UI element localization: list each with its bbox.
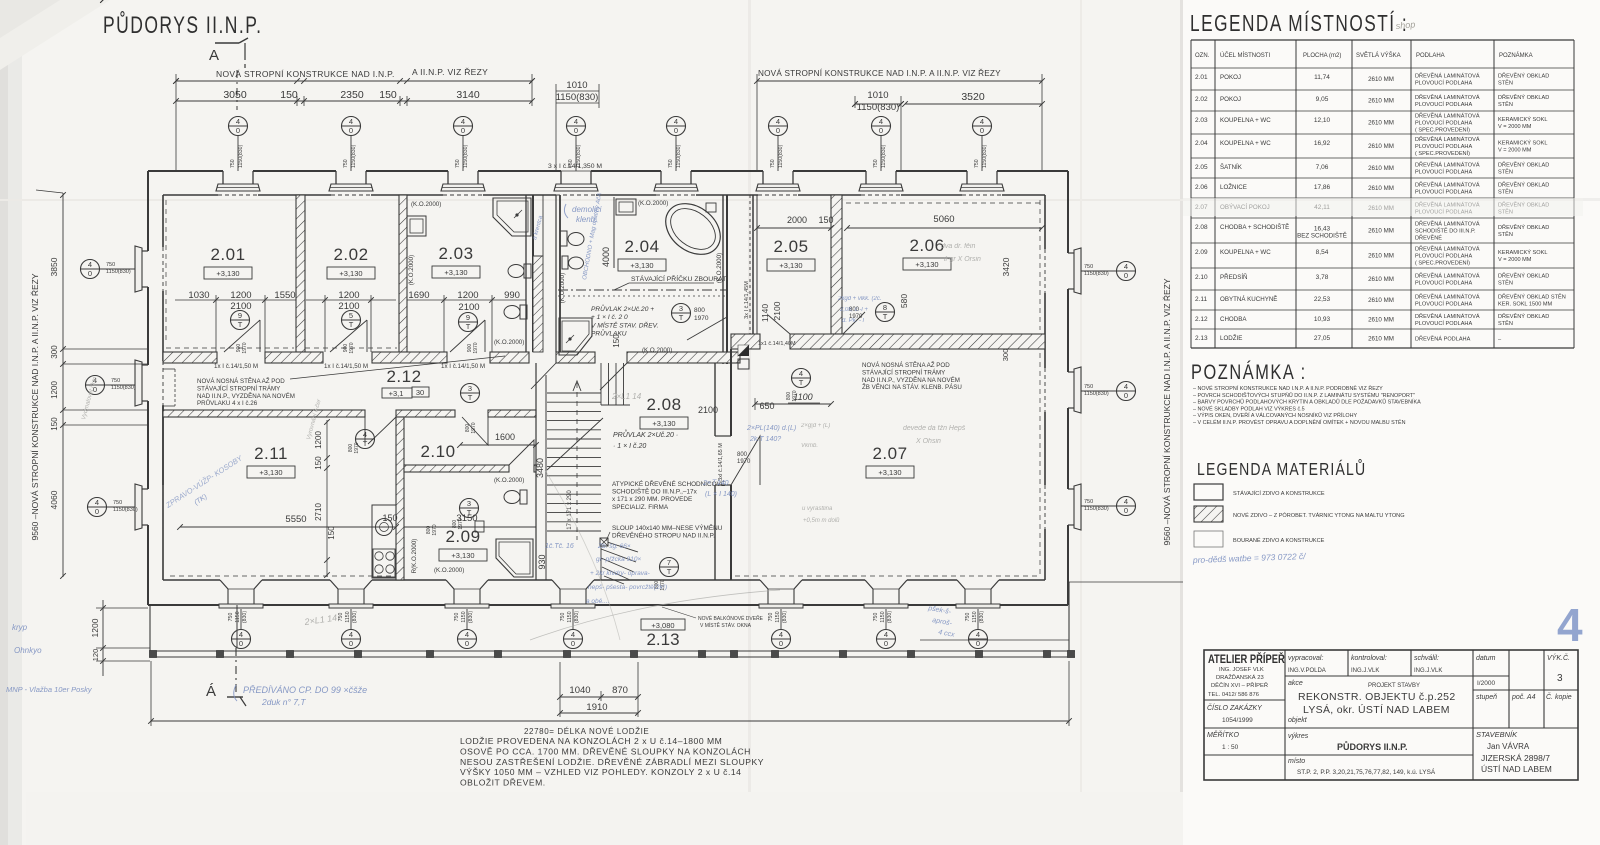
svg-text:4: 4	[1124, 382, 1128, 391]
svg-text:5060: 5060	[933, 214, 954, 225]
svg-text:+ 1 × I č. 2 0: + 1 × I č. 2 0	[591, 314, 628, 321]
svg-text:1970: 1970	[737, 459, 751, 465]
svg-text:il-gr X Orsin: il-gr X Orsin	[944, 256, 981, 263]
svg-text:T: T	[883, 312, 888, 321]
svg-text:ING.J.VLK: ING.J.VLK	[1414, 668, 1442, 674]
building outer wall left	[147, 171, 149, 251]
svg-text:2.06: 2.06	[909, 236, 944, 255]
svg-text:DŘEVĚNÝ OBKLAD: DŘEVĚNÝ OBKLAD	[1498, 93, 1549, 101]
svg-text:5: 5	[349, 311, 353, 320]
svg-text:NOVÉ BALKÓNOVÉ DVEŘE: NOVÉ BALKÓNOVÉ DVEŘE	[698, 614, 764, 622]
svg-text:2×PL(140) d.(L): 2×PL(140) d.(L)	[746, 425, 796, 432]
svg-text:1200: 1200	[50, 381, 59, 399]
corridor circle 3T	[461, 384, 480, 403]
svg-text:PLOVOUCÍ PODLAHA: PLOVOUCÍ PODLAHA	[1415, 168, 1472, 175]
svg-text:Zb. šg. 66×: Zb. šg. 66×	[597, 543, 631, 550]
svg-text:LEGENDA MÍSTNOSTÍ :: LEGENDA MÍSTNOSTÍ :	[1190, 11, 1408, 37]
svg-text:0: 0	[1124, 391, 1128, 400]
svg-text:4: 4	[1124, 497, 1128, 506]
svg-text:1150(830): 1150(830)	[111, 385, 136, 391]
svg-text:1150(830): 1150(830)	[238, 144, 244, 168]
svg-text:DŘEVĚNÉ: DŘEVĚNÉ	[1415, 233, 1442, 241]
svg-text:JIZERSKÁ 2898/7: JIZERSKÁ 2898/7	[1481, 753, 1550, 763]
svg-text:1200: 1200	[90, 618, 100, 637]
svg-text:PROJEKT STAVBY: PROJEKT STAVBY	[1368, 683, 1420, 689]
svg-text:3480: 3480	[535, 458, 545, 478]
west niche door dashes	[174, 369, 176, 406]
svg-text:4060: 4060	[49, 490, 59, 509]
svg-text:ŠATNÍK: ŠATNÍK	[1220, 164, 1243, 171]
wall 2.04 left	[555, 195, 557, 352]
svg-text:(K.O.2000): (K.O.2000)	[638, 200, 668, 207]
svg-text:4000: 4000	[601, 247, 611, 267]
svg-text:2100: 2100	[772, 301, 782, 320]
svg-text:NAD II.N.P., VYZDĚNA NA NO: NAD II.N.P., VYZDĚNA NA NOVÉM	[862, 376, 960, 384]
svg-text:2.03: 2.03	[438, 244, 473, 263]
svg-text:4: 4	[776, 117, 780, 126]
svg-text:STAVEBNÍK: STAVEBNÍK	[1476, 730, 1518, 739]
svg-text:3: 3	[467, 499, 471, 508]
svg-text:X Ohsin: X Ohsin	[915, 438, 941, 445]
svg-text:gr- přžcka 910×: gr- přžcka 910×	[596, 556, 641, 563]
svg-text:DŘEVĚNÉHO STROPU NAD II.N.P: DŘEVĚNÉHO STROPU NAD II.N.P.	[612, 531, 715, 540]
winder steps bottom	[601, 540, 638, 552]
svg-text:1č.Tč. 16: 1č.Tč. 16	[545, 543, 574, 550]
svg-text:4: 4	[95, 498, 99, 507]
svg-text:0: 0	[976, 639, 980, 648]
svg-text:POZNÁMKA: POZNÁMKA	[1499, 52, 1533, 59]
svg-text:2610 MM: 2610 MM	[1368, 76, 1394, 83]
svg-text:930: 930	[537, 554, 547, 569]
grid marker circles top	[229, 117, 248, 136]
2.03 bidet	[504, 306, 520, 319]
legend title	[1190, 11, 1408, 37]
svg-text:ING. JOSEF VLK: ING. JOSEF VLK	[1219, 667, 1264, 673]
svg-text:22780= DÉLKA NOVÉ LODŽIE: 22780= DÉLKA NOVÉ LODŽIE	[524, 727, 649, 736]
svg-text:30: 30	[416, 388, 424, 397]
left bottom dims 1200 120	[102, 0, 104, 1]
svg-text:SCHODIŠTĚ DO III.N.P.: SCHODIŠTĚ DO III.N.P.	[1415, 227, 1476, 235]
svg-text:ÚČEL MÍSTNOSTI: ÚČEL MÍSTNOSTI	[1220, 52, 1270, 59]
svg-text:0: 0	[1124, 271, 1128, 280]
svg-text:TEL. 0412/ 586 876: TEL. 0412/ 586 876	[1208, 692, 1259, 698]
svg-text:0: 0	[349, 126, 353, 135]
2.03 wc	[508, 265, 524, 278]
svg-text:(K.O.2000): (K.O.2000)	[411, 201, 441, 208]
svg-text:(830): (830)	[979, 611, 985, 623]
svg-text:kryp: kryp	[12, 623, 28, 632]
svg-text:800: 800	[737, 452, 748, 458]
svg-text:PLOVOUCÍ PODLAHA: PLOVOUCÍ PODLAHA	[1415, 279, 1472, 286]
svg-text:800: 800	[694, 307, 705, 314]
svg-text:+3,130: +3,130	[444, 268, 467, 277]
svg-text:2610 MM: 2610 MM	[1368, 336, 1394, 343]
title PUDORYS II.N.P.	[103, 11, 262, 38]
svg-text:– V CELÉM II.N.P. PROVÉST: – V CELÉM II.N.P. PROVÉST OPRAVU A DOPLN…	[1193, 418, 1406, 426]
svg-text:150: 150	[50, 417, 59, 431]
svg-text:7: 7	[667, 558, 671, 567]
svg-text:3050: 3050	[223, 89, 247, 101]
svg-text:schválil:: schválil:	[1414, 655, 1439, 662]
svg-text:1970: 1970	[694, 315, 709, 322]
material swatch 1	[1194, 484, 1223, 500]
svg-text:LODŽIE: LODŽIE	[1220, 334, 1242, 342]
2.03 door circle	[459, 313, 478, 332]
svg-text:2,0k, c.-l +: 2,0k, c.-l +	[839, 307, 868, 313]
svg-text:9: 9	[466, 313, 470, 322]
svg-text:PRŮVLAKU 4 x I č.26: PRŮVLAKU 4 x I č.26	[197, 400, 258, 407]
svg-text:STÁVAJÍCÍ ZDIVO A KONSTRUKC: STÁVAJÍCÍ ZDIVO A KONSTRUKCE	[1233, 490, 1325, 497]
loggia deck lines	[920, 639, 1069, 641]
stair hall west wall	[535, 363, 537, 580]
svg-text:A: A	[209, 47, 219, 64]
2.01 door swing	[259, 320, 261, 352]
svg-text:650: 650	[759, 401, 774, 411]
svg-text:KER. SOKL 1500 MM: KER. SOKL 1500 MM	[1498, 301, 1553, 307]
svg-text:OBLOŽIT DŘEVEM.: OBLOŽIT DŘEVEM.	[460, 778, 546, 788]
svg-text:DRAŽĎANSKÁ 23: DRAŽĎANSKÁ 23	[1216, 673, 1264, 681]
svg-text:3,78: 3,78	[1316, 274, 1329, 281]
hall door leaf west	[531, 363, 556, 389]
svg-text:750: 750	[343, 159, 349, 168]
interior wall 2.03 right	[525, 195, 527, 352]
wall 2.05 left	[752, 195, 754, 340]
dashed ceiling lines rooms	[166, 347, 294, 349]
svg-text:1x I č.14/1,50 M: 1x I č.14/1,50 M	[441, 363, 485, 370]
svg-text:– BARVY POVRCHŮ PODLAHOVÝCH: – BARVY POVRCHŮ PODLAHOVÝCH KRYTIN A OBK…	[1193, 398, 1421, 406]
svg-text:2.07: 2.07	[872, 444, 907, 463]
svg-text:DŘEVĚNÝ OBKLAD: DŘEVĚNÝ OBKLAD	[1498, 272, 1549, 280]
svg-text:2610 MM: 2610 MM	[1368, 317, 1394, 324]
svg-text:2100: 2100	[458, 302, 479, 313]
svg-text:0: 0	[461, 126, 465, 135]
2.04 wc	[560, 231, 567, 246]
svg-text:d. Pk. - l: d. Pk. - l	[842, 318, 865, 324]
svg-text:3xI č.14/1,65 M: 3xI č.14/1,65 M	[718, 443, 724, 481]
svg-text:0: 0	[236, 126, 240, 135]
interior wall 2.01|2.02 (new, hatched)	[296, 195, 305, 352]
svg-text:NOVÁ STROPNÍ KONSTRUKCE NAD: NOVÁ STROPNÍ KONSTRUKCE NAD I.N.P. A II.…	[758, 68, 1001, 78]
svg-text:4: 4	[884, 630, 888, 639]
svg-text:12,10: 12,10	[1314, 117, 1331, 124]
svg-text:(830): (830)	[352, 611, 358, 623]
svg-text:KOUPELNA + WC: KOUPELNA + WC	[1220, 249, 1271, 256]
svg-text:16,92: 16,92	[1314, 140, 1331, 147]
legend table grid	[1190, 40, 1192, 348]
svg-text:8: 8	[883, 303, 887, 312]
svg-text:1200: 1200	[338, 290, 359, 301]
left wall windows	[142, 250, 148, 252]
svg-text:V = 2000 MM: V = 2000 MM	[1498, 257, 1532, 263]
svg-text:750: 750	[873, 159, 879, 168]
svg-text:1970: 1970	[458, 518, 464, 529]
svg-text:OZN.: OZN.	[1195, 53, 1210, 59]
svg-text:T: T	[238, 320, 243, 329]
svg-text:1150(830): 1150(830)	[676, 144, 682, 168]
svg-text:150: 150	[327, 526, 336, 540]
svg-text:x 171 x 290 MM. PROVEDE: x 171 x 290 MM. PROVEDE	[612, 496, 692, 503]
svg-text:– NOVÉ STROPNÍ KONSTRUKCE: – NOVÉ STROPNÍ KONSTRUKCE NAD I.N.P. A I…	[1193, 384, 1383, 392]
svg-text:2k.T 140?: 2k.T 140?	[749, 436, 781, 443]
svg-text:4: 4	[349, 630, 353, 639]
svg-text:STĚN: STĚN	[1498, 230, 1513, 238]
svg-text:V = 2000 MM: V = 2000 MM	[1498, 147, 1532, 153]
svg-text:1010: 1010	[867, 90, 888, 101]
stair hall circle 7T	[660, 558, 679, 577]
wall 2.08 right / 2.07 left	[714, 363, 716, 436]
2.03 door swing	[484, 320, 486, 352]
svg-text:750: 750	[770, 159, 776, 168]
svg-text:SCHODIŠTĚ DO III.N.P.,–17x: SCHODIŠTĚ DO III.N.P.,–17x	[612, 487, 698, 496]
svg-text:3: 3	[468, 384, 472, 393]
hall circle 4T	[792, 369, 811, 388]
2.01 door circle	[231, 311, 250, 330]
stair stringer diagonal	[547, 418, 603, 470]
left dim verticals	[62, 193, 64, 577]
svg-text:– POVRCH SCHODIŠŤOVÝCH STUP: – POVRCH SCHODIŠŤOVÝCH STUPŇŮ DO II.N.P.…	[1193, 391, 1415, 399]
right wall windows	[1068, 252, 1074, 254]
svg-text:1600: 1600	[495, 432, 515, 442]
svg-text:2duk n° 7,T: 2duk n° 7,T	[261, 697, 306, 707]
svg-text:+3,130: +3,130	[630, 261, 653, 270]
svg-text:POKOJ: POKOJ	[1220, 74, 1241, 81]
svg-text:SVĚTLÁ VÝŠKA: SVĚTLÁ VÝŠKA	[1356, 51, 1401, 59]
svg-text:ČÍSLO ZAKÁZKY: ČÍSLO ZAKÁZKY	[1207, 703, 1263, 712]
svg-text:1970: 1970	[242, 342, 248, 353]
svg-text:1200: 1200	[230, 290, 251, 301]
svg-text:DĚČÍN XVI – PŘÍPEŘ: DĚČÍN XVI – PŘÍPEŘ	[1211, 681, 1268, 689]
kitchen block in 2.11	[372, 505, 396, 578]
svg-text:DŘEVĚNÁ LAMINÁTOVÁ: DŘEVĚNÁ LAMINÁTOVÁ	[1415, 312, 1480, 320]
2.02 door swing	[366, 320, 368, 352]
svg-text:750: 750	[113, 500, 122, 506]
svg-text:1970: 1970	[349, 342, 355, 353]
svg-text:LODŽIE PROVEDENA NA KONZOLÁ: LODŽIE PROVEDENA NA KONZOLÁCH 2 x U č.14…	[460, 736, 722, 746]
svg-text:poč. A4: poč. A4	[1511, 694, 1536, 701]
svg-text:V = 2000 MM: V = 2000 MM	[1498, 124, 1532, 130]
svg-text:PODLAHA: PODLAHA	[1416, 53, 1445, 59]
pencil arcs bottom center	[530, 590, 780, 640]
svg-text:+3,130: +3,130	[259, 468, 282, 477]
svg-text:OSOVĚ PO CCA. 1700 MM. DŘ: OSOVĚ PO CCA. 1700 MM. DŘEVĚNÉ SLOUPKY N…	[460, 746, 751, 756]
svg-text:3520: 3520	[961, 91, 985, 103]
corridor circle 4T lower	[356, 430, 375, 449]
svg-text:1690: 1690	[408, 290, 429, 301]
top wall windows	[222, 171, 224, 184]
svg-text:750: 750	[1084, 499, 1093, 505]
svg-text:2kgd + vlkk. (2c.: 2kgd + vlkk. (2c.	[837, 296, 882, 302]
svg-text:9,05: 9,05	[1316, 96, 1329, 103]
svg-text:2710: 2710	[314, 503, 323, 521]
svg-text:1054/1999: 1054/1999	[1222, 717, 1253, 724]
svg-text:2.05: 2.05	[773, 237, 808, 256]
svg-text:DŘEVĚNÁ LAMINÁTOVÁ: DŘEVĚNÁ LAMINÁTOVÁ	[1415, 93, 1480, 101]
svg-text:4: 4	[976, 630, 980, 639]
svg-text:750: 750	[111, 378, 120, 384]
svg-text:750: 750	[454, 613, 460, 622]
svg-text:CHODBA: CHODBA	[1220, 316, 1247, 323]
svg-text:1200: 1200	[457, 290, 478, 301]
svg-text:kontroloval:: kontroloval:	[1351, 655, 1387, 662]
svg-text:2.10: 2.10	[1195, 274, 1208, 281]
svg-text:MNP - Vlažba 10er Posky: MNP - Vlažba 10er Posky	[6, 685, 93, 694]
svg-text:DŘEVĚNÁ LAMINÁTOVÁ: DŘEVĚNÁ LAMINÁTOVÁ	[1415, 245, 1480, 253]
2.11 door swing	[368, 417, 396, 444]
svg-text:1150: 1150	[235, 611, 241, 622]
building outer wall top	[148, 170, 223, 172]
svg-text:1150(830): 1150(830)	[463, 144, 469, 168]
svg-text:2610 MM: 2610 MM	[1368, 297, 1394, 304]
svg-text:750: 750	[106, 262, 115, 268]
svg-text:7,06: 7,06	[1316, 164, 1329, 171]
svg-text:( SPEC.PROVEDENÍ): ( SPEC.PROVEDENÍ)	[1415, 150, 1470, 157]
svg-text:2.01: 2.01	[1195, 74, 1208, 81]
svg-text:ÚSTÍ NAD LABEM: ÚSTÍ NAD LABEM	[1481, 764, 1552, 774]
svg-text:PLOVOUCÍ PODLAHA: PLOVOUCÍ PODLAHA	[1415, 120, 1472, 127]
interior wall 2.02|2.03 (new, hatched)	[399, 195, 407, 352]
wall 2.10|2.09 (new, hatched)	[404, 465, 509, 472]
svg-text:DŘEVĚNÝ OBKLAD: DŘEVĚNÝ OBKLAD	[1498, 72, 1549, 80]
svg-text:nepš- pšesta- povrcžtě(2k²): nepš- pšesta- povrcžtě(2k²)	[588, 584, 667, 591]
svg-text:BOURANÉ ZDIVO A KONSTRUKCE: BOURANÉ ZDIVO A KONSTRUKCE	[1233, 537, 1325, 544]
svg-text:STÁVAJÍCÍ STROPNÍ TRÁMY: STÁVAJÍCÍ STROPNÍ TRÁMY	[862, 369, 945, 376]
svg-text:9560 –NOVÁ STROPNÍ KONSTRUK: 9560 –NOVÁ STROPNÍ KONSTRUKCE NAD I.N.P.…	[1162, 278, 1172, 545]
svg-text:120: 120	[91, 649, 100, 662]
svg-text:4: 4	[574, 117, 578, 126]
svg-text:1030: 1030	[188, 290, 209, 301]
svg-text:KERAMICKÝ SOKL: KERAMICKÝ SOKL	[1498, 249, 1547, 256]
load wall right section (new, hatched)	[731, 334, 760, 349]
svg-text:2610 MM: 2610 MM	[1368, 276, 1394, 283]
title block left col	[1208, 652, 1285, 666]
svg-text:1x I č.14/1,50 M: 1x I č.14/1,50 M	[324, 363, 368, 370]
svg-text:17,86: 17,86	[1314, 184, 1331, 191]
svg-text:(830): (830)	[887, 611, 893, 623]
svg-text:3: 3	[1557, 673, 1563, 684]
svg-text:T: T	[679, 313, 684, 322]
svg-text:990: 990	[504, 290, 520, 301]
svg-text:DŘEVĚNÁ LAMINÁTOVÁ: DŘEVĚNÁ LAMINÁTOVÁ	[1415, 272, 1480, 280]
svg-text:11,74: 11,74	[1314, 74, 1330, 81]
svg-text:(830): (830)	[468, 611, 474, 623]
2.04 circle 3T	[672, 304, 691, 323]
svg-text:STĚN: STĚN	[1498, 319, 1513, 327]
svg-text:750: 750	[560, 613, 566, 622]
svg-text:V MÍSTĚ STÁV. OKNA: V MÍSTĚ STÁV. OKNA	[700, 621, 752, 629]
svg-text:1150(830): 1150(830)	[881, 144, 887, 168]
svg-text:1150: 1150	[972, 611, 978, 622]
svg-text:PŮDORYS II.N.P.: PŮDORYS II.N.P.	[103, 11, 262, 38]
2.04 sink	[616, 199, 636, 215]
svg-text:NOVÁ NOSNÁ STĚNA AŽ POD: NOVÁ NOSNÁ STĚNA AŽ POD	[862, 361, 950, 369]
svg-text:2350: 2350	[340, 89, 364, 101]
svg-text:1200: 1200	[314, 431, 323, 449]
svg-text:0: 0	[879, 126, 883, 135]
left window circles	[81, 260, 100, 279]
hall door leaf 2.04 entry	[600, 363, 627, 390]
svg-text:4: 4	[1557, 599, 1583, 651]
svg-text:0: 0	[1124, 506, 1128, 515]
svg-text:DŘEVĚNÁ PODLAHA: DŘEVĚNÁ PODLAHA	[1415, 335, 1471, 343]
svg-text:PŘEDSÍŇ: PŘEDSÍŇ	[1220, 273, 1248, 281]
svg-text:(K.O.2000): (K.O.2000)	[494, 477, 524, 484]
svg-text:3420: 3420	[1001, 257, 1011, 276]
svg-text:2× I̅ 140: 2× I̅ 140	[702, 479, 729, 487]
svg-text:0: 0	[674, 126, 678, 135]
svg-text:STĚN: STĚN	[1498, 100, 1513, 108]
svg-text:PLOVOUCÍ PODLAHA: PLOVOUCÍ PODLAHA	[1415, 300, 1472, 307]
2.04 door leaf	[687, 317, 727, 340]
svg-text:1140: 1140	[760, 304, 770, 323]
svg-text:1150(830): 1150(830)	[576, 144, 582, 168]
svg-text:(K.O.2000): (K.O.2000)	[434, 567, 464, 574]
svg-text:DŘEVĚNÁ LAMINÁTOVÁ: DŘEVĚNÁ LAMINÁTOVÁ	[1415, 220, 1480, 228]
svg-text:LOŽNICE: LOŽNICE	[1220, 183, 1247, 191]
svg-text:PLOVOUCÍ PODLAHA: PLOVOUCÍ PODLAHA	[1415, 320, 1472, 327]
svg-text:BEZ SCHODIŠTĚ: BEZ SCHODIŠTĚ	[1297, 232, 1347, 240]
svg-text:1x1 č.14/1,40M: 1x1 č.14/1,40M	[758, 341, 796, 347]
svg-text:2.08: 2.08	[646, 395, 681, 414]
svg-text:1x I č.14/1,50 M: 1x I č.14/1,50 M	[214, 363, 258, 370]
crease fade over table row 2.07	[1183, 198, 1583, 216]
svg-text:580: 580	[899, 294, 909, 308]
svg-text:2.09: 2.09	[1195, 249, 1208, 256]
svg-text:8,54: 8,54	[1316, 249, 1329, 256]
title block frame	[1204, 650, 1578, 780]
2.03 corner shower	[493, 198, 531, 236]
svg-text:POKOJ: POKOJ	[1220, 96, 1241, 103]
svg-text:T: T	[468, 393, 473, 402]
wall 2.05|2.06 (new, hatched)	[831, 195, 842, 334]
2.04 bath tub	[656, 193, 730, 265]
svg-text:STĚN: STĚN	[1498, 187, 1513, 195]
svg-text:devede da fžn Hepš: devede da fžn Hepš	[903, 425, 966, 432]
svg-text:3850: 3850	[49, 257, 59, 276]
dim 1040 870 1910	[560, 696, 638, 698]
svg-text:výkres: výkres	[1288, 733, 1309, 740]
svg-text:+3,130: +3,130	[779, 261, 802, 270]
svg-text:STĚN: STĚN	[1498, 167, 1513, 175]
svg-text:0: 0	[980, 126, 984, 135]
section marker A bottom	[227, 696, 243, 698]
material swatch 3	[1194, 531, 1223, 547]
svg-text:STÁVAJÍCÍ STROPNÍ TRÁMY: STÁVAJÍCÍ STROPNÍ TRÁMY	[197, 385, 280, 392]
svg-text:1 : 50: 1 : 50	[1222, 744, 1239, 751]
staircase treads	[547, 392, 601, 394]
staircase center dashed walk line with arrow	[576, 383, 578, 540]
2.04 shower	[559, 318, 592, 355]
svg-text:16,43: 16,43	[1314, 226, 1331, 233]
svg-text:KERAMICKÝ SOKL: KERAMICKÝ SOKL	[1498, 140, 1547, 147]
svg-text:1150: 1150	[567, 611, 573, 622]
svg-text:4: 4	[239, 630, 243, 639]
svg-text:NAD II.N.P., VYZDĚNA NA NO: NAD II.N.P., VYZDĚNA NA NOVÉM	[197, 392, 295, 400]
2.06 door leaf	[843, 312, 865, 334]
svg-text:(K.O.2000): (K.O.2000)	[716, 253, 723, 283]
svg-text:vypracoval:: vypracoval:	[1288, 655, 1323, 662]
black corner squares near hall	[738, 345, 749, 356]
svg-text:NESOU ZASTŘEŠENÍ LODŽIE. DŘ: NESOU ZASTŘEŠENÍ LODŽIE. DŘEVĚNÉ ZÁBRADL…	[460, 757, 764, 767]
svg-text:DŘEVĚNÁ LAMINÁTOVÁ: DŘEVĚNÁ LAMINÁTOVÁ	[1415, 135, 1480, 143]
svg-text:DŘEVĚNÁ LAMINÁTOVÁ: DŘEVĚNÁ LAMINÁTOVÁ	[1415, 72, 1480, 80]
svg-text:750: 750	[668, 159, 674, 168]
svg-text:MĚŘÍTKO: MĚŘÍTKO	[1207, 730, 1239, 739]
svg-text:1150(830): 1150(830)	[106, 269, 131, 275]
svg-text:1970: 1970	[792, 390, 798, 401]
svg-text:+3,130: +3,130	[216, 269, 239, 278]
svg-text:4: 4	[980, 117, 984, 126]
svg-text:150: 150	[280, 89, 298, 101]
